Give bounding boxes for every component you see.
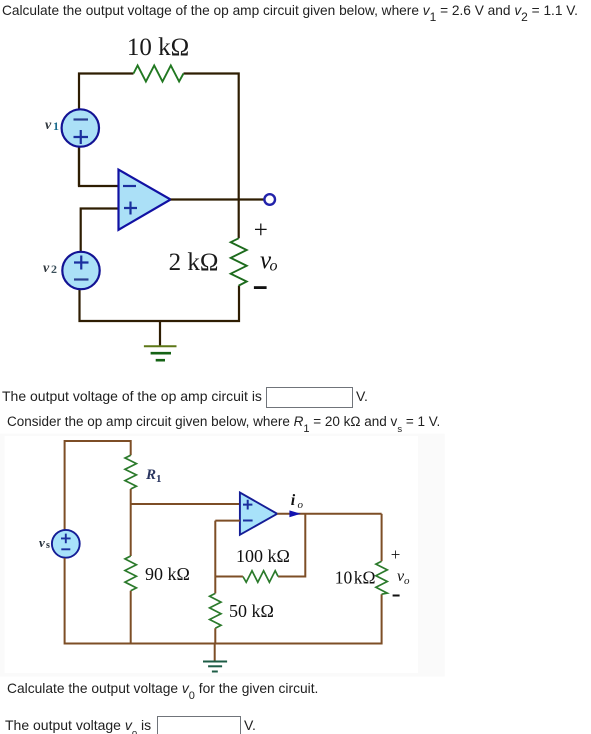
resistor 2k zigzag bbox=[231, 238, 247, 285]
svg-text:100 kΩ: 100 kΩ bbox=[236, 546, 290, 566]
wire: vs bottom to bottom rail bbox=[65, 558, 382, 644]
wire: feedback to minus rail bbox=[215, 576, 243, 578]
ground 2 bbox=[214, 644, 216, 662]
svg-text:1: 1 bbox=[53, 119, 59, 133]
svg-text:+: + bbox=[391, 545, 401, 564]
svg-text:R: R bbox=[145, 467, 156, 483]
wire: plus input bbox=[131, 503, 240, 505]
wire: v2 bottom to ground rail bbox=[80, 286, 240, 321]
ground bbox=[159, 321, 161, 346]
source v2 bbox=[62, 252, 99, 289]
wire: op-amp output bbox=[171, 198, 264, 200]
label - output bbox=[254, 286, 267, 289]
question 2 calc line bbox=[7, 681, 318, 696]
resistor R1 zigzag bbox=[125, 455, 136, 489]
svg-text:o: o bbox=[270, 258, 278, 275]
resistor 10k zigzag bbox=[134, 66, 184, 82]
svg-text:v: v bbox=[43, 261, 50, 276]
label - vo bbox=[393, 595, 400, 597]
svg-text:i: i bbox=[291, 492, 296, 509]
svg-text:s: s bbox=[46, 540, 50, 551]
circuit image white background bbox=[5, 436, 418, 673]
resistor 100k zigzag bbox=[243, 571, 278, 582]
question block background bbox=[0, 434, 445, 677]
resistor 10k zigzag bbox=[376, 561, 387, 594]
input box 1 bbox=[266, 387, 353, 408]
wire: v1 to minus input bbox=[79, 148, 119, 187]
wire: right rail through 2k bbox=[238, 200, 240, 239]
svg-text:o: o bbox=[298, 499, 304, 511]
wire: output bbox=[277, 513, 381, 515]
svg-text:+: + bbox=[254, 217, 268, 244]
resistor 50k zigzag bbox=[210, 593, 221, 628]
wire: R1 rail down through 90k bbox=[130, 489, 132, 556]
svg-text:50 kΩ: 50 kΩ bbox=[229, 601, 274, 621]
op-amp U2 bbox=[240, 493, 277, 535]
input box 2 bbox=[157, 716, 241, 734]
svg-text:10 kΩ: 10 kΩ bbox=[335, 568, 376, 588]
question 2 intro bbox=[7, 414, 440, 429]
source vs bbox=[52, 530, 80, 558]
svg-text:10 kΩ: 10 kΩ bbox=[127, 34, 189, 61]
wire: minus input bbox=[215, 521, 240, 577]
svg-text:o: o bbox=[404, 575, 410, 587]
wire: v2 to plus input bbox=[81, 209, 119, 252]
svg-text:v: v bbox=[39, 535, 45, 550]
circuit 1 SVG bbox=[0, 30, 300, 375]
svg-text:90 kΩ: 90 kΩ bbox=[145, 564, 190, 584]
output terminal bbox=[264, 194, 275, 205]
wire: top loop (feedback) bbox=[79, 74, 239, 200]
wire: feedback dropdown bbox=[278, 514, 305, 577]
wire: top loop vs to R1 bbox=[65, 441, 131, 530]
wire: 90k to bottom bbox=[130, 591, 132, 644]
source v1 bbox=[62, 109, 99, 146]
answer line 1 bbox=[2, 388, 262, 404]
answer line 2 bbox=[5, 717, 151, 733]
svg-text:2 kΩ: 2 kΩ bbox=[169, 249, 219, 276]
wire: 50k rail bbox=[214, 577, 216, 644]
svg-text:2: 2 bbox=[51, 262, 57, 276]
svg-text:1: 1 bbox=[156, 473, 162, 485]
circuit 2 SVG bbox=[0, 433, 446, 677]
wire: 10k top bbox=[381, 514, 383, 561]
op-amp U1 bbox=[119, 170, 171, 230]
resistor 90k zigzag bbox=[125, 556, 136, 591]
current arrow io bbox=[289, 510, 300, 517]
title line 1 bbox=[2, 3, 578, 18]
svg-text:v: v bbox=[45, 118, 52, 133]
